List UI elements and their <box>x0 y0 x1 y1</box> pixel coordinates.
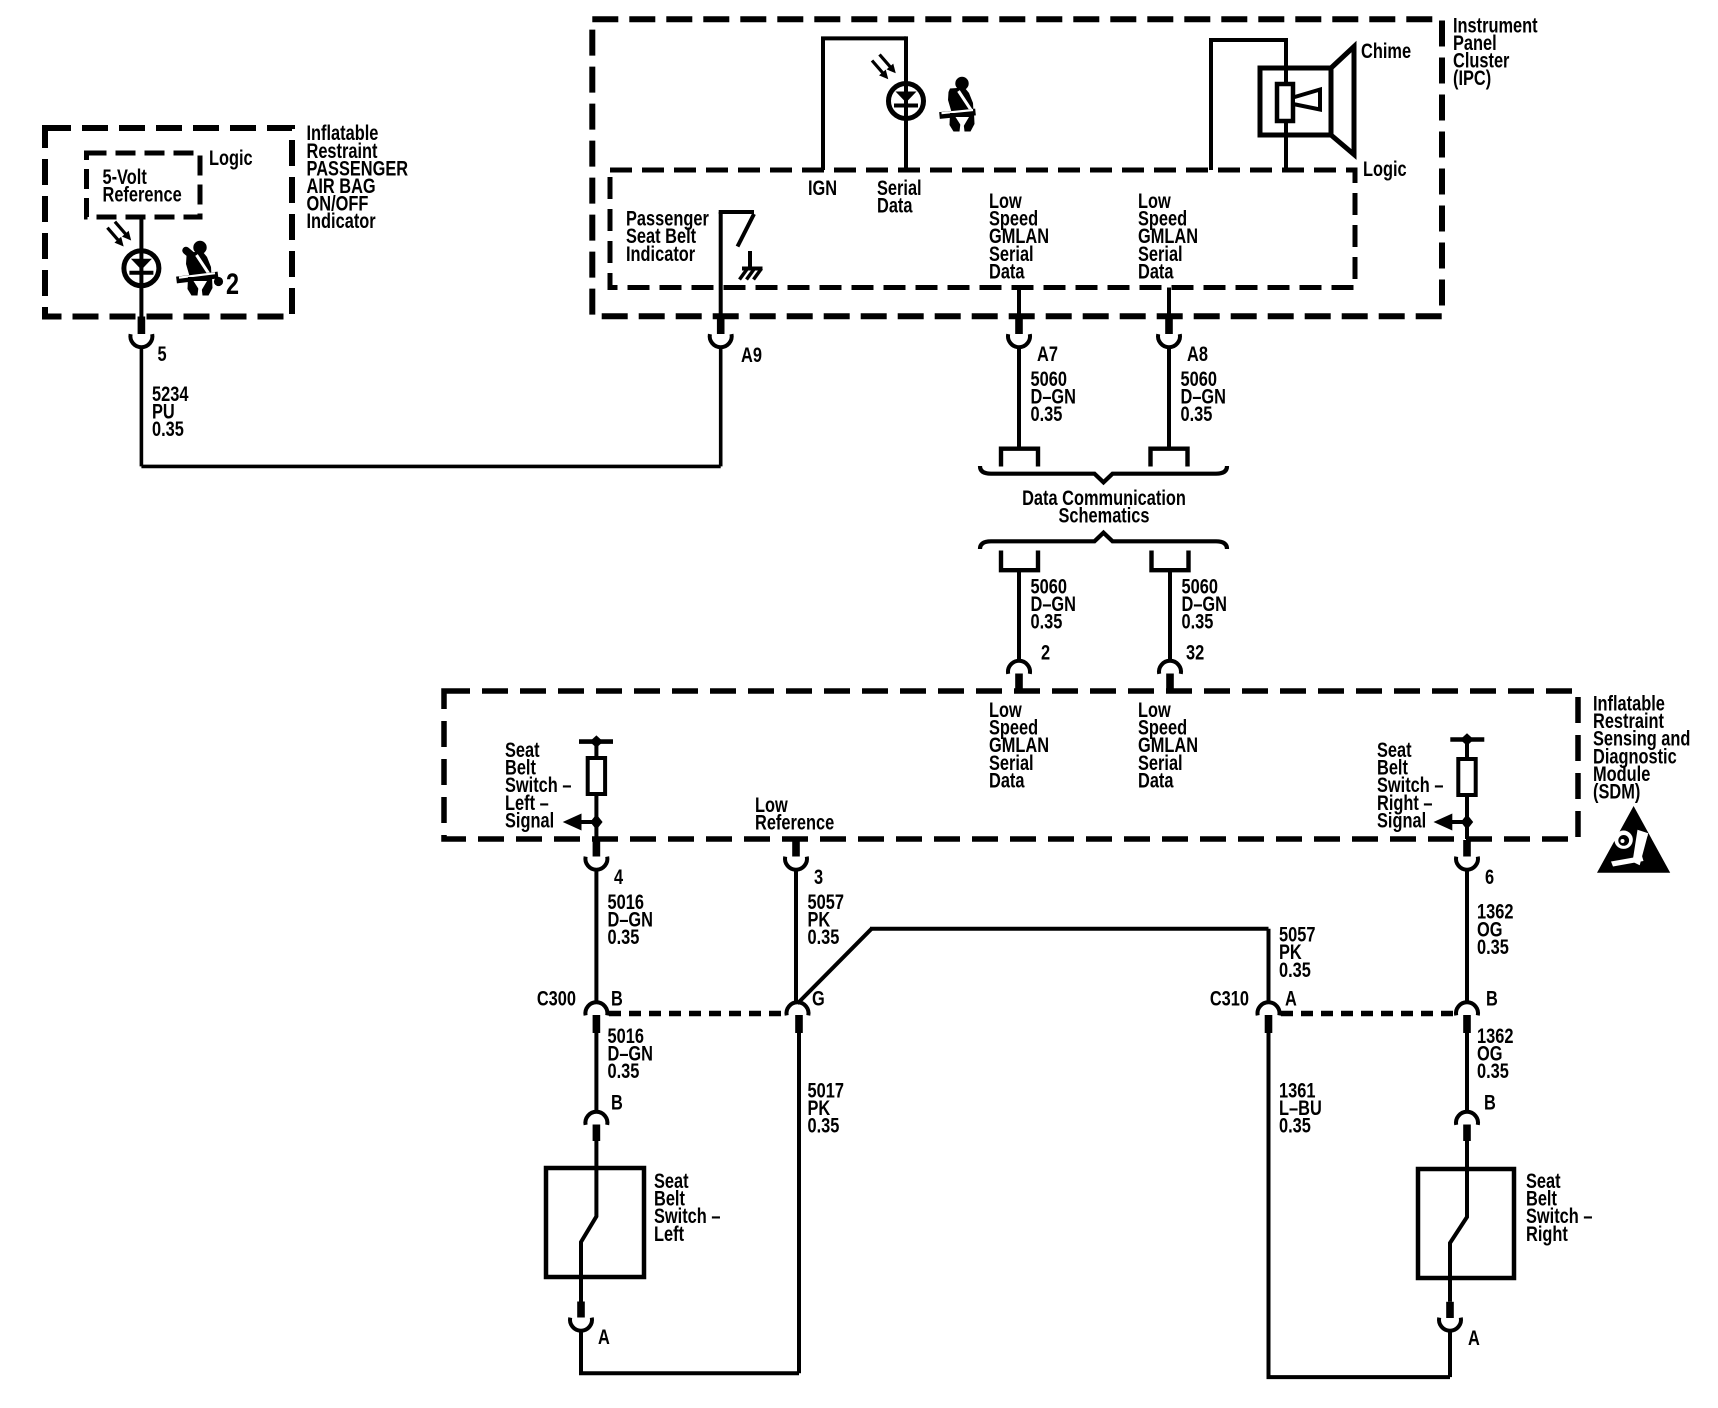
svg-text:A7: A7 <box>1037 342 1058 365</box>
svg-text:Indicator: Indicator <box>307 209 377 232</box>
svg-text:Left: Left <box>654 1222 685 1245</box>
label: Logic (IPC) <box>1363 157 1407 180</box>
svg-text:3: 3 <box>814 865 823 888</box>
resistor: seat belt switch right pull-up <box>1458 742 1475 822</box>
connector cap: C300 pin G <box>787 1002 809 1015</box>
switch blade (left seat belt switch) <box>581 1168 596 1277</box>
module box: Inflatable Restraint PASSENGER AIR BAG ON/OFF Indicator <box>45 128 292 317</box>
svg-text:A: A <box>598 1325 610 1348</box>
wire: IGN to Serial Data top run <box>821 36 906 40</box>
chime speaker driver horn <box>1293 90 1320 110</box>
wire label: 5234 PU 0.35 <box>152 382 189 441</box>
svg-text:0.35: 0.35 <box>1279 1114 1311 1137</box>
wire: left switch to pin A <box>579 1277 583 1302</box>
pin stub C300-B <box>593 1015 601 1033</box>
wire label: 5057 PK 0.35 (pin 3) <box>808 890 844 949</box>
sub-box: 5-Volt Reference (logic) <box>87 153 201 217</box>
chime speaker driver <box>1277 84 1293 121</box>
svg-text:Schematics: Schematics <box>1058 504 1149 527</box>
logic sub-box (IPC) <box>610 170 1355 288</box>
indicator LED (PASS AIR BAG ON/OFF lamp) <box>107 222 158 286</box>
label: Low Reference <box>755 793 834 834</box>
wire: right switch to pin A <box>1448 1278 1452 1302</box>
pin stub 6 <box>1463 840 1471 857</box>
connector cup: pin A9 <box>710 334 732 347</box>
wire: LED to module edge <box>139 286 143 317</box>
connector cap: C310 pin B <box>1456 1002 1478 1015</box>
pin stub A7 <box>1015 317 1023 335</box>
label: switch pin A (right) <box>1468 1326 1480 1349</box>
icon: airbag warning triangle (SDM) <box>1597 806 1670 873</box>
resistor: seat belt switch left pull-up <box>588 744 605 822</box>
pin stub A9 <box>717 317 725 335</box>
connector cup: pin A7 <box>1008 334 1030 347</box>
svg-text:(SDM): (SDM) <box>1593 780 1640 803</box>
svg-text:A9: A9 <box>741 343 762 366</box>
label: pin 6 <box>1485 865 1494 888</box>
wire: left loop bottom run <box>579 1371 799 1375</box>
label: Chime <box>1361 39 1411 62</box>
label: C310 pin A <box>1285 987 1297 1010</box>
pin stub A (left switch) <box>577 1302 585 1318</box>
label: Serial Data <box>877 176 922 217</box>
wire: C310-A down (right loop) <box>1267 1033 1271 1377</box>
wire label: 5060 D-GN 0.35 (pin 32) <box>1182 575 1228 634</box>
connector cup: pin 3 <box>785 857 807 870</box>
svg-text:Logic: Logic <box>209 146 253 169</box>
label: Data Communication Schematics <box>1022 486 1186 527</box>
label: C310 <box>1210 987 1249 1010</box>
connector cup: right switch pin A <box>1439 1318 1461 1331</box>
wire: GMLAN A7 inside IPC <box>1017 288 1021 317</box>
wire label: 5017 PK 0.35 <box>808 1079 844 1138</box>
label: Seat Belt Switch - Left <box>654 1169 720 1245</box>
wire: 5-Volt Reference to indicator LED <box>139 217 143 251</box>
wire label: 5057 PK 0.35 (right) <box>1279 923 1315 982</box>
switch: passenger seat belt indicator driver (wire + blade) <box>719 212 754 317</box>
wire: 5057 horizontal run <box>870 927 1269 931</box>
arrow: Seat Belt Switch - Right - Signal <box>1434 814 1474 831</box>
wire: into right switch box <box>1465 1141 1469 1171</box>
wire: IGN stub <box>821 38 825 170</box>
off-page tab (to SDM pin 32) <box>1152 551 1189 571</box>
svg-text:Reference: Reference <box>103 183 182 206</box>
label: pin A9 <box>741 343 762 366</box>
arrow: Seat Belt Switch - Left - Signal <box>563 814 603 831</box>
wire label: 5060 D-GN 0.35 (A8) <box>1181 367 1227 426</box>
wire: tab down to pin 2 <box>1017 570 1021 661</box>
label: Seat Belt Switch - Right - Signal <box>1377 738 1443 832</box>
component box: Seat Belt Switch - Right <box>1418 1169 1514 1278</box>
label: pin 2 <box>1041 641 1050 664</box>
pin stub C310-A <box>1265 1015 1273 1033</box>
label: Passenger Seat Belt Indicator <box>626 207 709 266</box>
svg-text:B: B <box>1486 987 1498 1010</box>
svg-text:6: 6 <box>1485 865 1494 888</box>
svg-text:G: G <box>812 987 825 1010</box>
wire: C310-B down to switch pin B <box>1465 1033 1469 1112</box>
svg-text:0.35: 0.35 <box>152 417 184 440</box>
svg-text:0.35: 0.35 <box>1279 958 1311 981</box>
pin stub B (left switch) <box>593 1125 601 1142</box>
module box: Instrument Panel Cluster (IPC) <box>592 19 1442 316</box>
svg-text:Data: Data <box>989 259 1025 282</box>
wire label: 5016 D-GN 0.35 (below C300) <box>608 1024 654 1083</box>
label: Instrument Panel Cluster (IPC) <box>1453 13 1538 89</box>
svg-text:IGN: IGN <box>808 176 837 199</box>
svg-text:2: 2 <box>1041 641 1050 664</box>
pin stub C300-G <box>795 1015 803 1033</box>
svg-text:Reference: Reference <box>755 811 834 834</box>
svg-text:0.35: 0.35 <box>808 925 840 948</box>
chime speaker body <box>1260 68 1331 135</box>
wire: pin 6 to C310-B <box>1465 869 1469 1002</box>
icon: seat belt passenger pictograph (IPC) <box>940 77 976 132</box>
pin stub 5 <box>138 317 146 335</box>
label: C300 pin B <box>611 987 623 1010</box>
label: Logic <box>209 146 253 169</box>
label: 2 (callout) <box>226 267 239 300</box>
indicator LED: passenger seat belt lamp (IPC) <box>872 55 924 119</box>
svg-text:0.35: 0.35 <box>608 925 640 948</box>
svg-text:B: B <box>1484 1091 1496 1114</box>
wire: right signal to SDM edge <box>1465 822 1469 839</box>
label: switch pin B (right) <box>1484 1091 1496 1114</box>
wire: serial data vertical through LED <box>904 36 908 170</box>
label: switch pin B (left) <box>611 1091 623 1114</box>
label: C300 pin G <box>812 987 825 1010</box>
label: Seat Belt Switch - Right <box>1526 1169 1592 1245</box>
svg-text:Data: Data <box>989 768 1025 791</box>
svg-text:0.35: 0.35 <box>1031 402 1063 425</box>
svg-text:0.35: 0.35 <box>1031 610 1063 633</box>
label: Low Speed GMLAN Serial Data (SDM pin 32) <box>1138 698 1198 792</box>
svg-text:4: 4 <box>614 865 624 888</box>
svg-text:0.35: 0.35 <box>1181 402 1213 425</box>
ground symbol (IPC logic) <box>740 251 763 280</box>
wire: up to right switch pin A <box>1448 1330 1452 1377</box>
connector cup: pin 5 <box>130 334 152 347</box>
label: C310 pin B <box>1486 987 1498 1010</box>
wire label: 5016 D-GN 0.35 (pin 4) <box>608 890 654 949</box>
svg-text:Data: Data <box>877 194 913 217</box>
label: pin 5 <box>158 342 167 365</box>
wire: A8 to off-page tab <box>1167 347 1171 447</box>
label: pin 4 <box>614 865 624 888</box>
svg-text:Indicator: Indicator <box>626 242 696 265</box>
switch blade (right seat belt switch) <box>1450 1169 1467 1278</box>
svg-text:0.35: 0.35 <box>808 1114 840 1137</box>
connector cap: pin 2 <box>1008 661 1030 674</box>
wire: chime loop right (to speaker) <box>1284 38 1288 170</box>
brace: data communication (lower) <box>980 533 1227 549</box>
svg-text:Right: Right <box>1526 1222 1568 1245</box>
wire: pin 5 down <box>140 347 144 467</box>
svg-text:C310: C310 <box>1210 987 1249 1010</box>
svg-text:Signal: Signal <box>1377 808 1426 831</box>
svg-text:(IPC): (IPC) <box>1453 66 1491 89</box>
svg-text:2: 2 <box>226 267 239 300</box>
wire label: 1361 L-BU 0.35 <box>1279 1079 1322 1138</box>
wire: C300-B down to switch pin B <box>594 1033 598 1112</box>
svg-text:A8: A8 <box>1187 342 1208 365</box>
svg-text:B: B <box>611 1091 623 1114</box>
connector cap: C300 pin B <box>585 1002 607 1015</box>
label: C300 <box>537 987 576 1010</box>
svg-text:0.35: 0.35 <box>608 1059 640 1082</box>
pin stub A8 <box>1165 317 1173 335</box>
off-page tab (A7 to data schematics) <box>1001 449 1038 467</box>
connector cap: left switch pin B <box>585 1112 607 1125</box>
module box: Inflatable Restraint Sensing and Diagnostic Module (SDM) <box>444 691 1578 839</box>
component box: Seat Belt Switch - Left <box>546 1168 644 1277</box>
svg-text:A: A <box>1285 987 1297 1010</box>
wire label: 1362 OG 0.35 (pin 6) <box>1477 900 1513 959</box>
connector cup: pin 6 <box>1456 857 1478 870</box>
label: 5-Volt Reference <box>103 165 182 206</box>
pin stub B (right switch) <box>1463 1125 1471 1142</box>
label: IGN <box>808 176 837 199</box>
wire label: 5060 D-GN 0.35 (A7) <box>1031 367 1077 426</box>
node bar + junction (left signal) <box>579 735 613 747</box>
off-page tab (A8 to data schematics) <box>1151 449 1188 467</box>
inline connector C300 (dashed) <box>609 1011 786 1017</box>
label: switch pin A (left) <box>598 1325 610 1348</box>
brace: data communication (upper) <box>980 466 1227 482</box>
svg-text:5: 5 <box>158 342 167 365</box>
label: Inflatable Restraint Sensing and Diagnostic Module (SDM) <box>1593 692 1690 803</box>
wire: right loop bottom run <box>1267 1375 1451 1379</box>
pin stub C310-B <box>1463 1015 1471 1033</box>
wire: down to C310-A <box>1267 929 1271 1003</box>
svg-text:C300: C300 <box>537 987 576 1010</box>
wire: chime loop left <box>1209 40 1213 170</box>
pin stub 2 (into SDM) <box>1015 674 1023 694</box>
node bar + junction (right signal) <box>1450 733 1484 745</box>
connector cup: left switch pin A <box>570 1318 592 1331</box>
inline connector C310 (dashed) <box>1281 1011 1455 1017</box>
chime speaker horn flare <box>1331 47 1354 155</box>
connector cup: pin 4 <box>585 857 607 870</box>
label: pin 32 <box>1186 641 1204 664</box>
svg-text:0.35: 0.35 <box>1477 1059 1509 1082</box>
pin stub 32 (into SDM) <box>1166 674 1174 694</box>
wire: left signal to SDM edge <box>594 822 598 839</box>
wire: left loop up to C300-G <box>797 1033 801 1373</box>
wire: pin 4 to C300-B <box>594 869 598 1002</box>
wire: horizontal run to A9 <box>141 465 720 469</box>
svg-text:0.35: 0.35 <box>1182 610 1214 633</box>
pin stub 4 <box>593 840 601 857</box>
wire: pin 3 down to C300-G <box>794 869 798 1002</box>
svg-text:A: A <box>1468 1326 1480 1349</box>
wire label: 1362 OG 0.35 (below C310) <box>1477 1024 1513 1083</box>
wire: pin A down (left loop) <box>579 1330 583 1373</box>
label: Low Speed GMLAN Serial Data (SDM pin 2) <box>989 698 1049 792</box>
label: pin A8 <box>1187 342 1208 365</box>
connector cup: pin A8 <box>1158 334 1180 347</box>
pin stub A (right switch) <box>1446 1302 1454 1318</box>
connector cap: right switch pin B <box>1456 1112 1478 1125</box>
label: Low Speed GMLAN Serial Data (A7) <box>989 189 1049 283</box>
wire: tab down to pin 32 <box>1168 570 1172 661</box>
svg-text:Data: Data <box>1138 259 1174 282</box>
svg-text:Signal: Signal <box>505 808 554 831</box>
label: Seat Belt Switch - Left - Signal <box>505 738 571 832</box>
connector cap: pin 32 <box>1159 661 1181 674</box>
svg-text:Chime: Chime <box>1361 39 1411 62</box>
wire: diagonal from C300-G to right run <box>798 929 872 1004</box>
svg-text:Logic: Logic <box>1363 157 1407 180</box>
connector cap: C310 pin A <box>1258 1002 1280 1015</box>
icon: seat belt passenger pictograph <box>177 241 224 296</box>
svg-text:Data: Data <box>1138 768 1174 791</box>
label: Inflatable Restraint PASSENGER AIR BAG ON/OFF Indicator <box>307 121 409 232</box>
svg-text:32: 32 <box>1186 641 1204 664</box>
wire: into left switch box <box>594 1141 598 1170</box>
label: Low Speed GMLAN Serial Data (A8) <box>1138 189 1198 283</box>
svg-text:0.35: 0.35 <box>1477 935 1509 958</box>
svg-text:B: B <box>611 987 623 1010</box>
wire: up to pin A9 <box>719 347 723 467</box>
label: pin 3 <box>814 865 823 888</box>
wire: chime loop top <box>1209 38 1286 42</box>
wire label: 5060 D-GN 0.35 (pin 2) <box>1031 575 1077 634</box>
pin stub 3 <box>792 840 800 857</box>
wire: A7 to off-page tab <box>1017 347 1021 447</box>
off-page tab (to SDM pin 2) <box>1001 551 1038 571</box>
label: pin A7 <box>1037 342 1058 365</box>
wire: GMLAN A8 inside IPC <box>1167 288 1171 317</box>
